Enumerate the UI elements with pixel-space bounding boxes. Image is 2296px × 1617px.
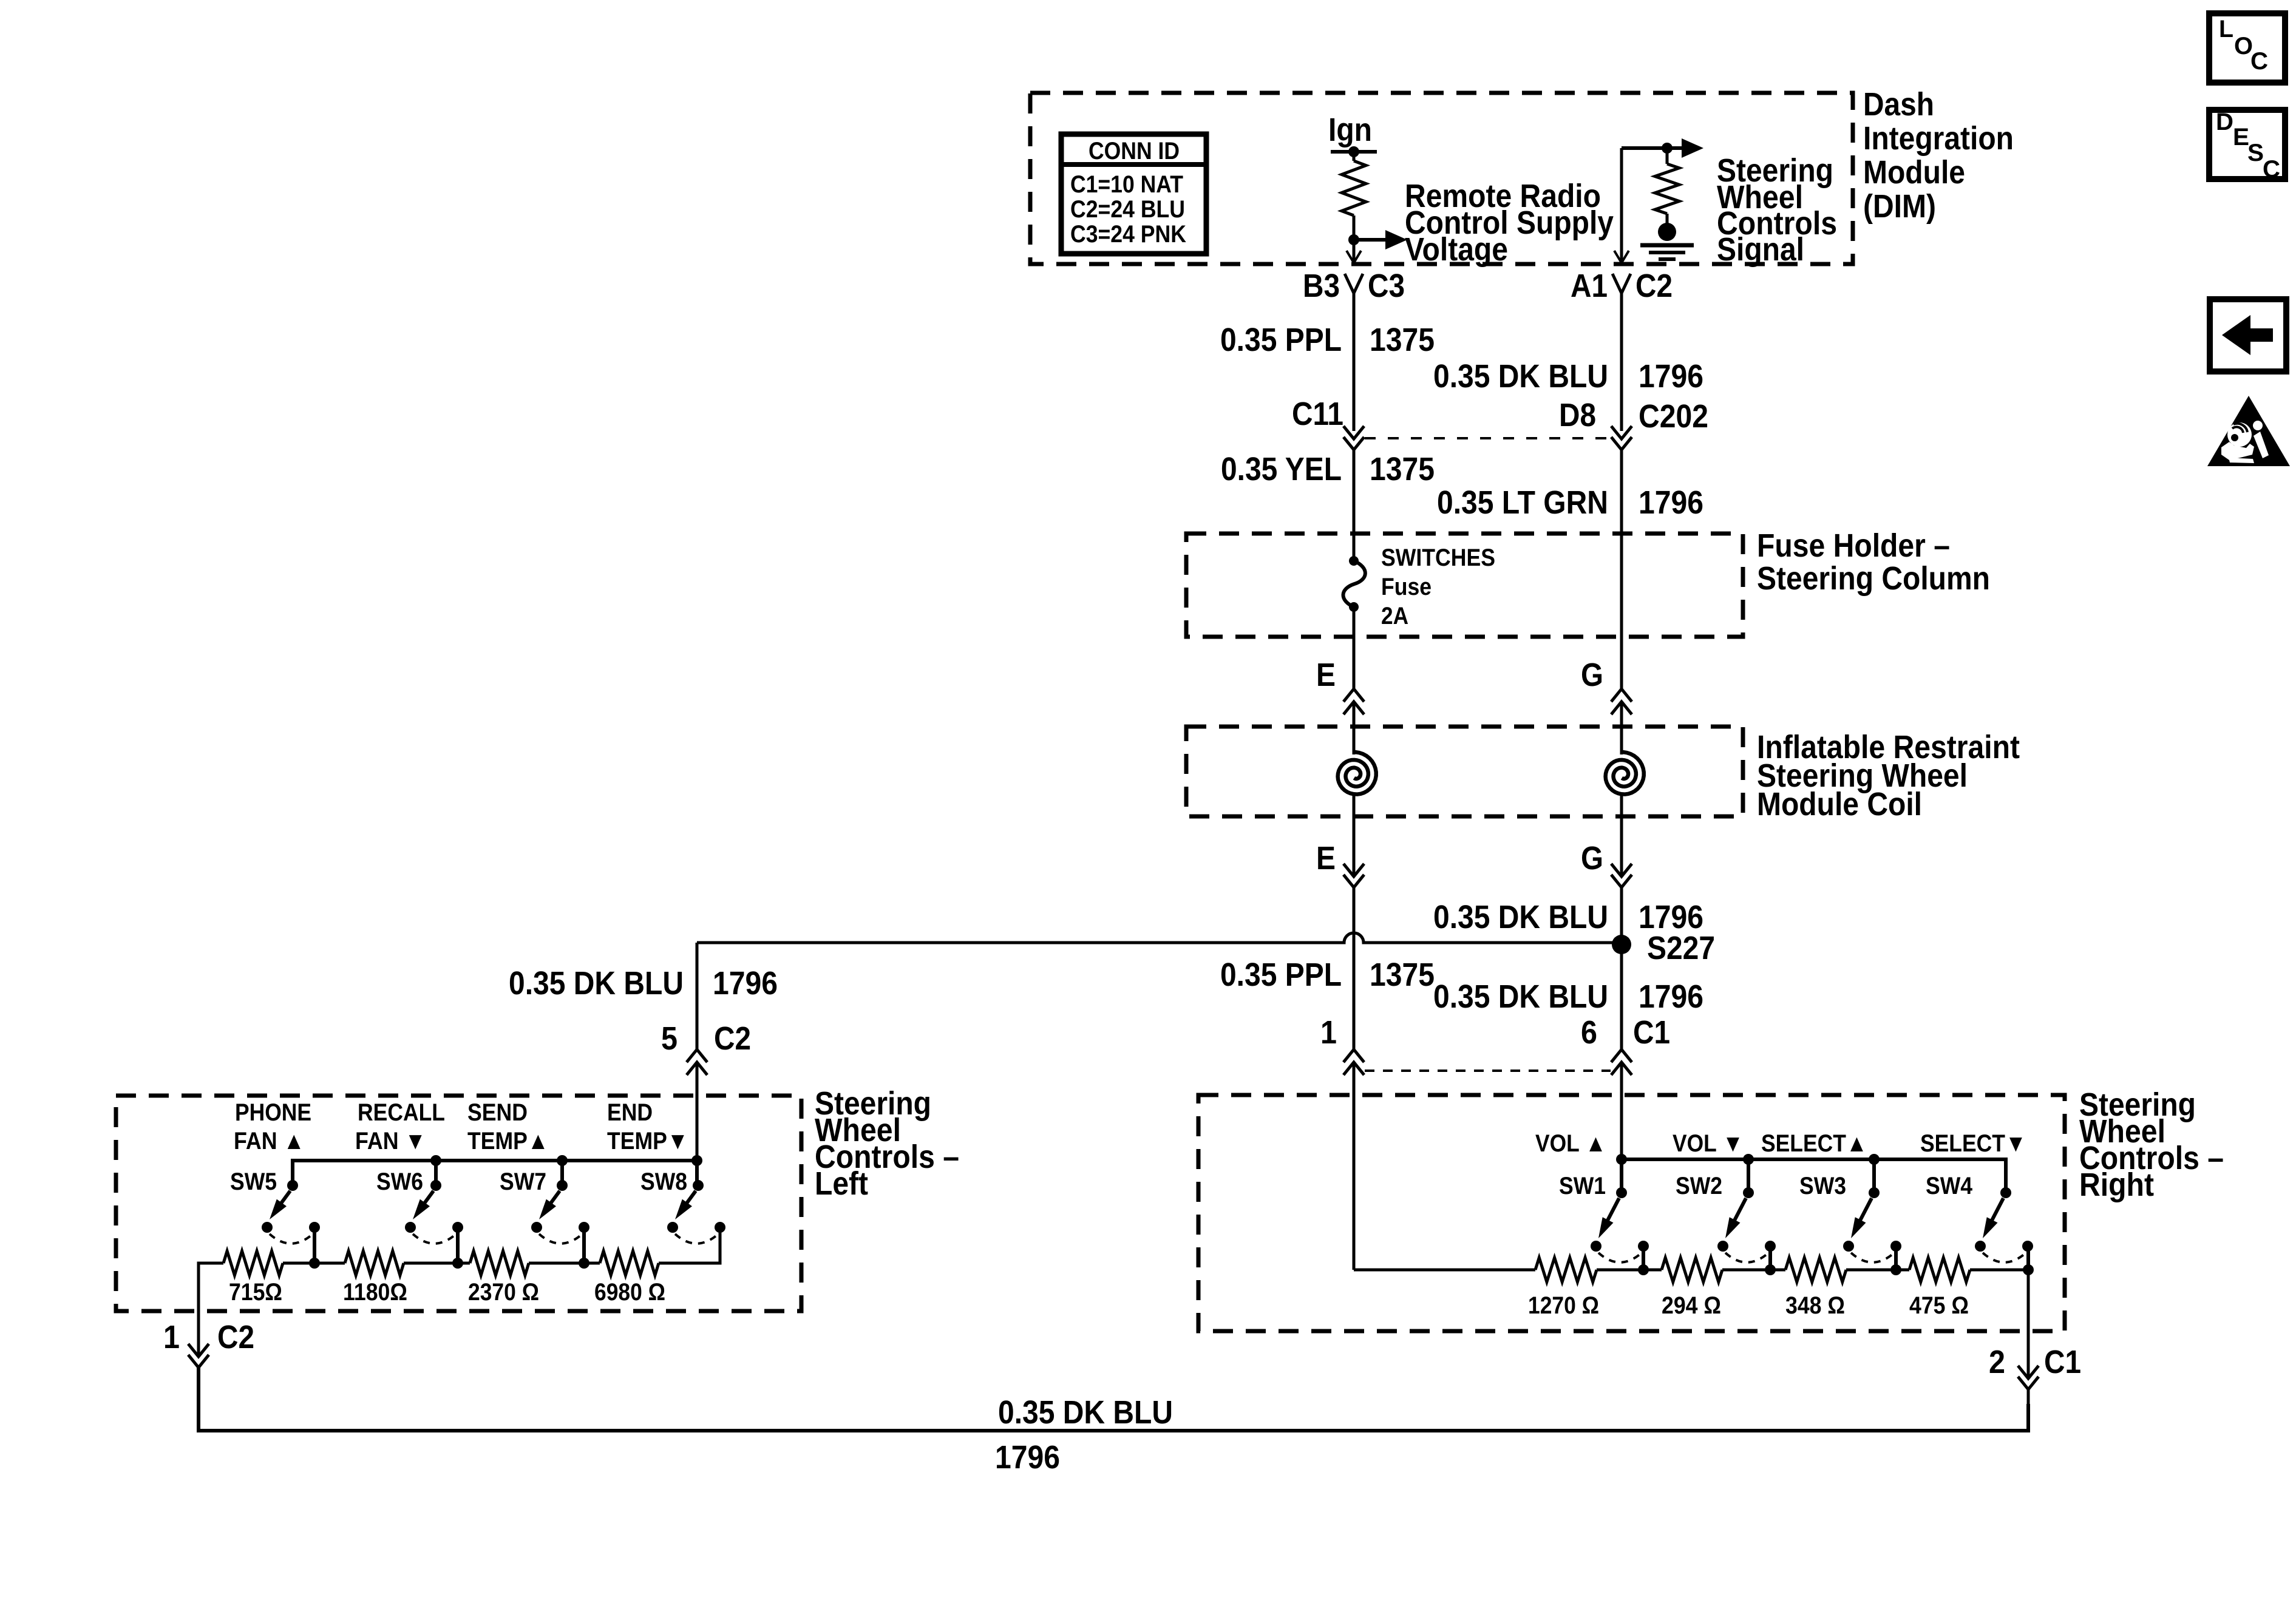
svg-text:1: 1: [1320, 1014, 1337, 1051]
connector E lower: [1316, 840, 1364, 887]
splice S227: [1612, 935, 1631, 954]
left box resistor chain wire: [199, 1262, 223, 1265]
connector pin 1: [1320, 1014, 1364, 1075]
svg-text:S: S: [2247, 140, 2264, 166]
svg-text:C2: C2: [1635, 268, 1673, 304]
stub SW2: [1747, 1159, 1750, 1193]
svg-text:(DIM): (DIM): [1863, 188, 1936, 225]
svg-text:1796: 1796: [1639, 358, 1703, 395]
svg-text:SWITCHES: SWITCHES: [1381, 544, 1495, 571]
svg-text:FAN ▼: FAN ▼: [355, 1128, 426, 1154]
label SEND TEMP up: [467, 1099, 549, 1154]
svg-text:D: D: [2216, 109, 2233, 135]
back arrow icon: [2210, 299, 2286, 371]
svg-text:PHONE: PHONE: [235, 1099, 311, 1126]
wire splice branch with hop: [697, 933, 1622, 943]
svg-text:C202: C202: [1639, 398, 1708, 435]
svg-text:C11: C11: [1292, 396, 1343, 432]
connector pin 6 C1: [1581, 1014, 1670, 1075]
switch SW7: [531, 1180, 589, 1244]
svg-text:Module Coil: Module Coil: [1757, 786, 1922, 822]
svg-text:0.35 PPL: 0.35 PPL: [1220, 957, 1342, 993]
svg-text:Steering Column: Steering Column: [1757, 560, 1990, 597]
svg-text:0.35 DK BLU: 0.35 DK BLU: [1433, 899, 1608, 935]
connector C11 / D8 C202: [1292, 396, 1708, 450]
stub SW6: [434, 1161, 438, 1185]
connector A1 C2: [1571, 268, 1673, 304]
svg-text:1796: 1796: [995, 1439, 1060, 1476]
Fuse Holder - Steering Column box: [1186, 534, 1743, 637]
label Steering Wheel Controls Signal: [1717, 152, 1837, 268]
svg-text:SELECT▲: SELECT▲: [1761, 1130, 1867, 1157]
ground symbol: [1640, 223, 1694, 259]
wire G to splice S227: [1620, 887, 1623, 1049]
svg-text:Voltage: Voltage: [1405, 231, 1508, 268]
label RECALL FAN down: [355, 1099, 445, 1154]
wire bottom run 0.35 DK BLU 1796: [199, 1368, 2028, 1431]
svg-text:Ign: Ign: [1328, 112, 1372, 148]
svg-text:475 Ω: 475 Ω: [1909, 1292, 1969, 1319]
wire pin6 into right box: [1620, 1062, 1623, 1159]
svg-text:2370 Ω: 2370 Ω: [468, 1279, 539, 1306]
node SW6 tap: [456, 1227, 460, 1263]
svg-text:Signal: Signal: [1717, 231, 1804, 268]
node SW5 tap: [313, 1227, 316, 1263]
svg-text:1375: 1375: [1370, 451, 1435, 487]
wire branch to 5 C2: [696, 943, 699, 1049]
node SW2 tap: [1768, 1246, 1772, 1270]
stub SW8: [695, 1161, 699, 1185]
stub SW3: [1872, 1159, 1876, 1193]
switch SW4: [1975, 1187, 2033, 1263]
svg-text:0.35 PPL: 0.35 PPL: [1220, 322, 1342, 358]
svg-text:1375: 1375: [1370, 322, 1435, 358]
svg-text:CONN ID: CONN ID: [1089, 138, 1180, 164]
wire steering wheel controls signal: [1620, 148, 1623, 262]
module label: Dash Integration Module (DIM): [1863, 86, 2014, 225]
svg-text:SW8: SW8: [640, 1168, 687, 1195]
label Remote Radio Control Supply Voltage: [1405, 178, 1614, 268]
connector 1 C2: [163, 1319, 254, 1368]
wire E to pin 1: [1353, 887, 1356, 1049]
svg-text:0.35 DK BLU: 0.35 DK BLU: [509, 965, 684, 1002]
wire to SW4 contact: [1970, 1269, 2028, 1272]
node SW7 tap: [582, 1227, 586, 1263]
svg-text:D8: D8: [1559, 397, 1596, 433]
Ign feed tick: [1331, 150, 1377, 154]
svg-text:Fuse: Fuse: [1381, 574, 1432, 600]
svg-text:L: L: [2219, 16, 2233, 42]
node junction with arrow: [1348, 234, 1359, 245]
svg-text:0.35 LT GRN: 0.35 LT GRN: [1437, 484, 1608, 521]
wire into left box: [696, 1062, 699, 1161]
svg-text:Right: Right: [2079, 1167, 2154, 1203]
svg-text:6980 Ω: 6980 Ω: [594, 1279, 665, 1306]
wire E to coil: [1353, 702, 1356, 754]
svg-text:C3: C3: [1368, 268, 1405, 304]
connector 5 C2: [661, 1020, 751, 1075]
DESC icon box: [2209, 109, 2285, 183]
wire 0.35 DK BLU 1796: [1620, 293, 1623, 431]
Steering Wheel Controls - Left box: [116, 1096, 801, 1311]
svg-text:S227: S227: [1647, 930, 1715, 966]
node SW3 tap: [1894, 1246, 1898, 1270]
svg-text:TEMP▲: TEMP▲: [467, 1128, 549, 1154]
module label: Steering Wheel Controls Right: [2079, 1086, 2224, 1203]
resistor 348 ohm: [1785, 1258, 1846, 1282]
connector C1 dashed line: [1365, 1070, 1611, 1072]
svg-text:0.35 DK BLU: 0.35 DK BLU: [1433, 358, 1608, 395]
resistor DIM signal pull-up: [1666, 148, 1669, 164]
LOC icon box: [2209, 13, 2285, 83]
right box resistor chain wire: [1354, 1269, 1535, 1272]
svg-text:Module: Module: [1863, 154, 1965, 191]
svg-text:0.35 YEL: 0.35 YEL: [1221, 451, 1342, 487]
right box bus wire: [1622, 1159, 2006, 1193]
Inflatable Restraint Steering Wheel Module Coil box: [1186, 727, 1743, 816]
resistor 715 ohm: [223, 1251, 283, 1275]
svg-text:C2=24 BLU: C2=24 BLU: [1070, 196, 1185, 223]
svg-text:SW5: SW5: [230, 1168, 277, 1195]
resistor 6980 ohm: [600, 1251, 659, 1275]
Dash Integration Module (DIM) box: [1030, 93, 1853, 264]
svg-text:G: G: [1581, 657, 1603, 693]
label PHONE FAN up: [234, 1099, 311, 1154]
svg-text:C2: C2: [714, 1020, 751, 1057]
svg-text:348 Ω: 348 Ω: [1785, 1292, 1845, 1319]
node SW4 tap: [2026, 1246, 2030, 1270]
wire 0.35 YEL 1375: [1353, 450, 1356, 561]
switch SW5: [262, 1180, 320, 1244]
svg-text:1796: 1796: [1639, 484, 1703, 521]
svg-text:1180Ω: 1180Ω: [343, 1279, 407, 1306]
svg-text:5: 5: [661, 1020, 678, 1057]
svg-text:Fuse Holder –: Fuse Holder –: [1757, 527, 1950, 564]
connector G lower: [1581, 840, 1632, 887]
switch SW3: [1843, 1187, 1901, 1263]
svg-text:FAN ▲: FAN ▲: [234, 1128, 305, 1154]
wire 0.35 LT GRN 1796: [1620, 450, 1623, 689]
wire left box exit: [199, 1263, 223, 1357]
svg-text:E: E: [2233, 124, 2249, 151]
wire: [283, 1262, 345, 1265]
svg-text:SEND: SEND: [467, 1099, 528, 1126]
resistor 2370 ohm: [470, 1251, 529, 1275]
resistor 1270 ohm: [1535, 1258, 1597, 1282]
svg-text:SELECT▼: SELECT▼: [1920, 1130, 2026, 1157]
svg-text:C3=24 PNK: C3=24 PNK: [1070, 221, 1186, 248]
stub SW1: [1620, 1159, 1623, 1193]
svg-text:1796: 1796: [1639, 978, 1703, 1015]
label END TEMP down: [607, 1099, 688, 1154]
svg-text:294 Ω: 294 Ω: [1662, 1292, 1721, 1319]
wire pin1 into right box: [1353, 1062, 1356, 1270]
svg-text:Integration: Integration: [1863, 120, 2014, 157]
svg-text:G: G: [1581, 840, 1603, 876]
wire coil to E lower: [1353, 796, 1356, 876]
svg-text:C1=10 NAT: C1=10 NAT: [1070, 171, 1183, 198]
svg-text:1375: 1375: [1370, 957, 1435, 993]
module label: Inflatable Restraint Steering Wheel Module Coil: [1757, 729, 2020, 822]
svg-text:END: END: [607, 1099, 653, 1126]
wire: [1846, 1269, 1909, 1272]
switch SW1: [1591, 1187, 1649, 1263]
svg-text:SW6: SW6: [376, 1168, 423, 1195]
wire: [529, 1262, 600, 1265]
svg-text:SW3: SW3: [1799, 1173, 1846, 1199]
wire to SW8 contact: [659, 1227, 720, 1263]
coil spiral G: [1606, 752, 1644, 795]
svg-text:VOL ▲: VOL ▲: [1535, 1130, 1606, 1157]
switch SW2: [1717, 1187, 1776, 1263]
svg-text:A1: A1: [1571, 268, 1608, 304]
resistor 475 ohm: [1909, 1258, 1970, 1282]
switch SW6: [405, 1180, 463, 1244]
svg-text:6: 6: [1581, 1014, 1597, 1051]
svg-text:SW4: SW4: [1926, 1173, 1973, 1199]
wire coil to G lower: [1620, 796, 1623, 876]
CONN ID table: [1061, 134, 1206, 254]
svg-text:1270 Ω: 1270 Ω: [1528, 1292, 1599, 1319]
svg-text:1: 1: [163, 1319, 180, 1355]
wire right box exit: [2027, 1270, 2030, 1378]
svg-text:SW7: SW7: [500, 1168, 546, 1195]
wire: [1353, 215, 1356, 262]
svg-text:C: C: [2263, 156, 2280, 183]
svg-text:C1: C1: [1633, 1014, 1670, 1051]
resistor DIM remote radio supply: [1353, 152, 1356, 161]
connector G upper: [1581, 657, 1632, 714]
wire G to coil: [1620, 702, 1623, 754]
left box bus wire: [293, 1161, 697, 1185]
svg-text:2A: 2A: [1381, 603, 1408, 629]
node SW1 tap: [1642, 1246, 1645, 1270]
svg-text:E: E: [1316, 840, 1336, 876]
svg-text:0.35 DK BLU: 0.35 DK BLU: [998, 1394, 1173, 1431]
connector B3 C3: [1303, 268, 1405, 304]
svg-text:0.35 DK BLU: 0.35 DK BLU: [1433, 978, 1608, 1015]
svg-text:Left: Left: [815, 1165, 868, 1202]
resistor 1180 ohm: [345, 1251, 404, 1275]
svg-text:Dash: Dash: [1863, 86, 1934, 123]
svg-text:VOL ▼: VOL ▼: [1673, 1130, 1744, 1157]
wire: [1597, 1269, 1662, 1272]
fuse SWITCHES Fuse 2A: [1343, 544, 1495, 629]
wire 0.35 PPL 1375: [1353, 293, 1356, 431]
svg-text:2: 2: [1989, 1344, 2005, 1380]
module label: Fuse Holder Steering Column: [1757, 527, 1990, 597]
svg-text:C2: C2: [217, 1319, 254, 1355]
switch SW8: [667, 1180, 725, 1244]
connector E upper: [1316, 657, 1364, 714]
wire fuse to E: [1353, 607, 1356, 689]
resistor 294 ohm: [1662, 1258, 1722, 1282]
svg-text:RECALL: RECALL: [358, 1099, 445, 1126]
svg-text:TEMP▼: TEMP▼: [607, 1128, 688, 1154]
svg-text:B3: B3: [1303, 268, 1340, 304]
connector 2 C1: [1989, 1344, 2081, 1389]
svg-text:C1: C1: [2044, 1344, 2081, 1380]
module label: Steering Wheel Controls Left: [815, 1085, 959, 1202]
stub SW7: [560, 1161, 564, 1185]
svg-text:715Ω: 715Ω: [229, 1279, 282, 1306]
wire: [1722, 1269, 1785, 1272]
svg-text:1796: 1796: [713, 965, 778, 1002]
Steering Wheel Controls - Right box: [1198, 1095, 2065, 1331]
svg-text:C: C: [2250, 48, 2268, 75]
svg-text:SW1: SW1: [1559, 1173, 1606, 1199]
wire: [2027, 1389, 2030, 1404]
wire: [404, 1262, 470, 1265]
coil spiral E: [1338, 752, 1376, 795]
svg-text:SW2: SW2: [1676, 1173, 1722, 1199]
svg-text:E: E: [1316, 657, 1336, 693]
SRS airbag warning triangle: [2207, 396, 2290, 466]
